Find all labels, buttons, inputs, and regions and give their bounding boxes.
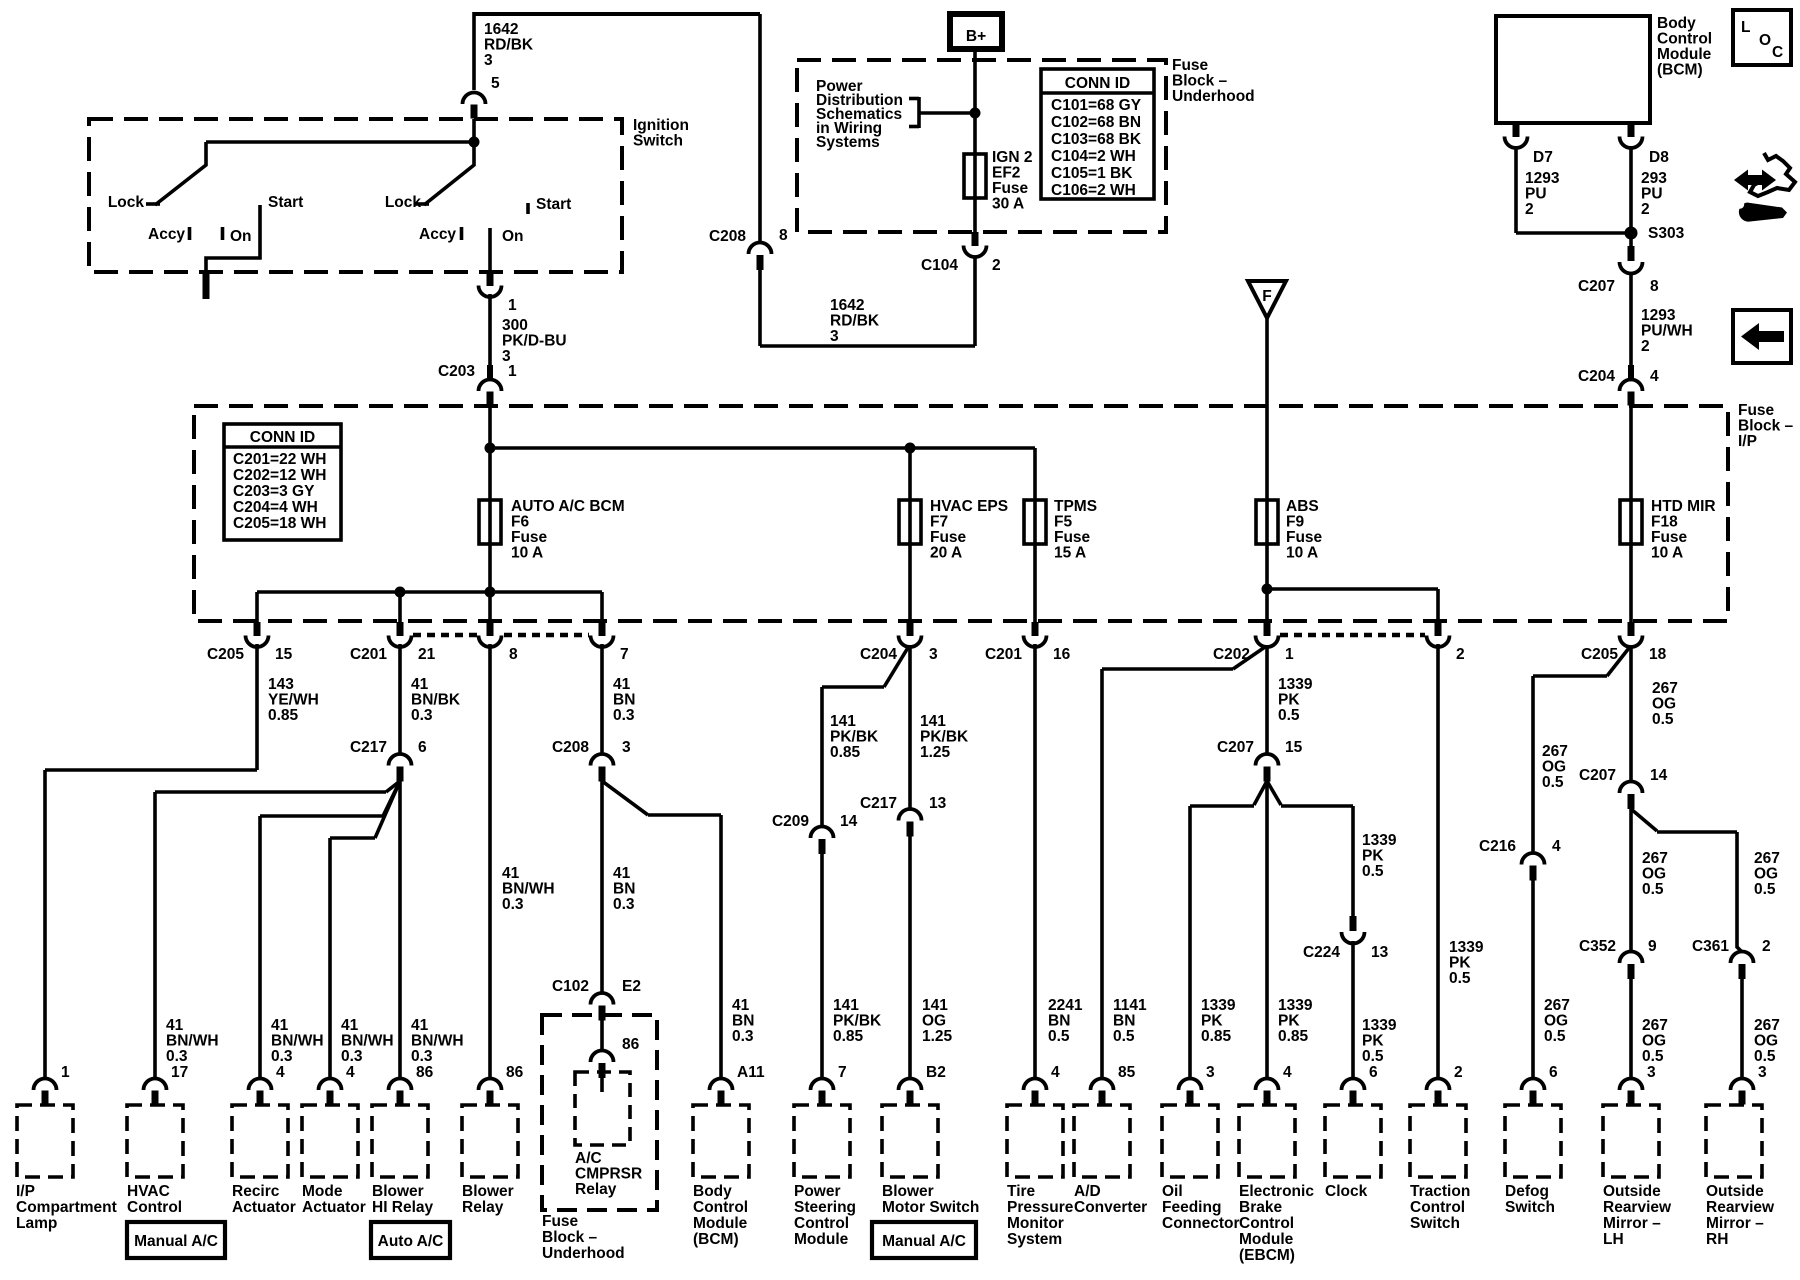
svg-text:Lamp: Lamp	[16, 1215, 57, 1232]
svg-text:14: 14	[840, 813, 858, 830]
svg-text:0.85: 0.85	[830, 744, 861, 761]
svg-text:1293: 1293	[1525, 170, 1560, 187]
svg-text:Fuse: Fuse	[992, 180, 1029, 197]
svg-text:16: 16	[1053, 646, 1071, 663]
svg-text:86: 86	[416, 1064, 434, 1081]
svg-text:10 A: 10 A	[511, 545, 543, 562]
svg-text:2: 2	[1525, 201, 1534, 218]
svg-text:13: 13	[929, 795, 947, 812]
svg-text:86: 86	[622, 1036, 640, 1053]
svg-text:Block –: Block –	[1738, 418, 1794, 435]
svg-text:BN: BN	[1113, 1013, 1135, 1030]
svg-text:0.5: 0.5	[1642, 881, 1664, 898]
svg-text:267: 267	[1642, 850, 1668, 867]
svg-text:Blower: Blower	[462, 1183, 514, 1200]
svg-text:PU/WH: PU/WH	[1641, 323, 1693, 340]
svg-text:Rearview: Rearview	[1603, 1199, 1672, 1216]
svg-text:Fuse: Fuse	[1286, 529, 1323, 546]
svg-text:Control: Control	[1410, 1199, 1465, 1216]
svg-text:C204: C204	[1578, 368, 1615, 385]
svg-text:PK/BK: PK/BK	[830, 729, 879, 746]
svg-text:PK: PK	[1201, 1013, 1223, 1030]
svg-text:0.5: 0.5	[1754, 881, 1776, 898]
svg-text:Fuse: Fuse	[1738, 402, 1775, 419]
svg-text:Tire: Tire	[1007, 1183, 1036, 1200]
svg-text:0.5: 0.5	[1278, 707, 1300, 724]
svg-text:141: 141	[830, 713, 856, 730]
svg-text:E2: E2	[622, 978, 641, 995]
svg-text:Defog: Defog	[1505, 1183, 1549, 1200]
svg-text:41: 41	[613, 676, 631, 693]
svg-text:5: 5	[491, 75, 500, 92]
svg-text:Manual A/C: Manual A/C	[882, 1233, 966, 1250]
svg-text:RD/BK: RD/BK	[830, 313, 880, 330]
svg-text:BN: BN	[613, 692, 635, 709]
svg-text:Module: Module	[794, 1231, 849, 1248]
svg-text:I/P: I/P	[16, 1183, 35, 1200]
svg-text:C217: C217	[350, 739, 387, 756]
svg-text:C352: C352	[1579, 938, 1616, 955]
svg-text:Module: Module	[1239, 1231, 1294, 1248]
svg-text:0.3: 0.3	[613, 896, 635, 913]
svg-text:30 A: 30 A	[992, 196, 1024, 213]
svg-text:C104: C104	[921, 257, 958, 274]
svg-text:C105=1 BK: C105=1 BK	[1051, 165, 1133, 182]
svg-text:1293: 1293	[1641, 307, 1676, 324]
svg-text:293: 293	[1641, 170, 1667, 187]
svg-text:Mirror –: Mirror –	[1603, 1215, 1661, 1232]
svg-text:Mirror –: Mirror –	[1706, 1215, 1764, 1232]
svg-text:Module: Module	[1657, 46, 1712, 63]
svg-text:C205: C205	[207, 646, 244, 663]
svg-text:41: 41	[411, 1017, 429, 1034]
svg-text:2: 2	[992, 257, 1001, 274]
svg-text:41: 41	[502, 865, 520, 882]
svg-text:267: 267	[1542, 743, 1568, 760]
svg-text:Body: Body	[693, 1183, 732, 1200]
svg-text:0.5: 0.5	[1362, 1048, 1384, 1065]
svg-text:YE/WH: YE/WH	[268, 692, 319, 709]
svg-text:A11: A11	[737, 1064, 765, 1081]
svg-text:C208: C208	[552, 739, 589, 756]
svg-text:OG: OG	[1754, 1033, 1778, 1050]
svg-text:(BCM): (BCM)	[1657, 62, 1703, 79]
svg-text:C102=68 BN: C102=68 BN	[1051, 114, 1141, 131]
svg-text:BN/WH: BN/WH	[341, 1033, 394, 1050]
svg-text:267: 267	[1652, 680, 1678, 697]
svg-text:HI Relay: HI Relay	[372, 1199, 434, 1216]
svg-text:C207: C207	[1578, 278, 1615, 295]
svg-text:HVAC: HVAC	[127, 1183, 170, 1200]
svg-text:LH: LH	[1603, 1231, 1624, 1248]
svg-text:0.85: 0.85	[1201, 1028, 1232, 1045]
svg-text:Outside: Outside	[1603, 1183, 1661, 1200]
svg-text:Lock: Lock	[108, 194, 145, 211]
svg-text:1.25: 1.25	[920, 744, 951, 761]
svg-text:Switch: Switch	[633, 133, 683, 150]
svg-text:BN/WH: BN/WH	[166, 1033, 219, 1050]
svg-text:Control: Control	[693, 1199, 748, 1216]
svg-text:I/P: I/P	[1738, 433, 1757, 450]
svg-text:Relay: Relay	[575, 1181, 617, 1198]
svg-text:85: 85	[1118, 1064, 1136, 1081]
svg-text:C103=68 BK: C103=68 BK	[1051, 131, 1142, 148]
svg-text:4: 4	[346, 1064, 355, 1081]
svg-text:2241: 2241	[1048, 997, 1083, 1014]
svg-text:41: 41	[411, 676, 429, 693]
svg-text:86: 86	[506, 1064, 524, 1081]
svg-text:System: System	[1007, 1231, 1062, 1248]
svg-text:2: 2	[1641, 201, 1650, 218]
svg-text:4: 4	[1283, 1064, 1292, 1081]
svg-text:6: 6	[1369, 1064, 1378, 1081]
svg-text:Fuse: Fuse	[1651, 529, 1688, 546]
svg-text:F5: F5	[1054, 514, 1072, 531]
svg-text:Oil: Oil	[1162, 1183, 1183, 1200]
svg-text:141: 141	[833, 997, 859, 1014]
svg-text:C201=22 WH: C201=22 WH	[233, 451, 326, 468]
svg-text:Rearview: Rearview	[1706, 1199, 1775, 1216]
svg-text:Converter: Converter	[1074, 1199, 1147, 1216]
svg-text:13: 13	[1371, 944, 1389, 961]
svg-text:300: 300	[502, 317, 528, 334]
svg-text:10 A: 10 A	[1651, 545, 1683, 562]
svg-text:0.5: 0.5	[1642, 1048, 1664, 1065]
svg-text:1.25: 1.25	[922, 1028, 953, 1045]
svg-text:Motor Switch: Motor Switch	[882, 1199, 979, 1216]
svg-text:C102: C102	[552, 978, 589, 995]
svg-text:41: 41	[613, 865, 631, 882]
svg-text:0.3: 0.3	[732, 1028, 754, 1045]
svg-text:C201: C201	[985, 646, 1022, 663]
svg-text:Electronic: Electronic	[1239, 1183, 1314, 1200]
svg-text:143: 143	[268, 676, 294, 693]
svg-text:CMPRSR: CMPRSR	[575, 1166, 642, 1183]
svg-text:(EBCM): (EBCM)	[1239, 1247, 1295, 1264]
svg-text:4: 4	[1650, 368, 1659, 385]
svg-text:Start: Start	[536, 196, 571, 213]
svg-text:0.5: 0.5	[1542, 774, 1564, 791]
svg-text:Monitor: Monitor	[1007, 1215, 1064, 1232]
svg-text:Control: Control	[1657, 31, 1712, 48]
svg-text:2: 2	[1456, 646, 1465, 663]
svg-text:B+: B+	[966, 28, 986, 45]
svg-text:2: 2	[1762, 938, 1771, 955]
svg-text:Underhood: Underhood	[1172, 88, 1255, 105]
svg-text:HTD MIR: HTD MIR	[1651, 498, 1716, 515]
svg-text:On: On	[230, 228, 252, 245]
svg-text:0.3: 0.3	[271, 1048, 293, 1065]
svg-text:3: 3	[1758, 1064, 1767, 1081]
svg-text:8: 8	[1650, 278, 1659, 295]
svg-text:0.5: 0.5	[1449, 970, 1471, 987]
svg-text:0.5: 0.5	[1544, 1028, 1566, 1045]
svg-text:Module: Module	[693, 1215, 748, 1232]
svg-text:Clock: Clock	[1325, 1183, 1368, 1200]
svg-text:Actuator: Actuator	[232, 1199, 296, 1216]
svg-text:C209: C209	[772, 813, 809, 830]
svg-text:Steering: Steering	[794, 1199, 856, 1216]
svg-text:Pressure: Pressure	[1007, 1199, 1074, 1216]
svg-text:1339: 1339	[1362, 832, 1397, 849]
svg-text:OG: OG	[1754, 866, 1778, 883]
svg-text:AUTO A/C BCM: AUTO A/C BCM	[511, 498, 625, 515]
svg-text:PU: PU	[1641, 186, 1663, 203]
svg-text:A/D: A/D	[1074, 1183, 1101, 1200]
svg-text:6: 6	[1549, 1064, 1558, 1081]
svg-text:2: 2	[1641, 338, 1650, 355]
svg-text:C205=18 WH: C205=18 WH	[233, 515, 326, 532]
svg-text:141: 141	[922, 997, 948, 1014]
svg-text:41: 41	[732, 997, 750, 1014]
svg-text:0.5: 0.5	[1754, 1048, 1776, 1065]
svg-text:Switch: Switch	[1410, 1215, 1460, 1232]
svg-text:0.3: 0.3	[411, 1048, 433, 1065]
svg-text:Accy: Accy	[148, 226, 185, 243]
svg-text:8: 8	[779, 227, 788, 244]
svg-text:3: 3	[1647, 1064, 1656, 1081]
svg-text:PK: PK	[1278, 692, 1300, 709]
svg-text:9: 9	[1648, 938, 1657, 955]
svg-text:267: 267	[1754, 1017, 1780, 1034]
svg-text:C: C	[1772, 44, 1783, 61]
svg-text:PK/D-BU: PK/D-BU	[502, 333, 567, 350]
svg-text:15: 15	[275, 646, 293, 663]
svg-text:Fuse: Fuse	[542, 1213, 579, 1230]
svg-text:1339: 1339	[1362, 1017, 1397, 1034]
svg-text:PK: PK	[1362, 1033, 1384, 1050]
svg-text:F7: F7	[930, 514, 948, 531]
svg-text:3: 3	[484, 52, 493, 69]
svg-text:41: 41	[341, 1017, 359, 1034]
svg-text:6: 6	[418, 739, 427, 756]
svg-text:Fuse: Fuse	[1054, 529, 1091, 546]
svg-text:C104=2 WH: C104=2 WH	[1051, 148, 1136, 165]
svg-text:Compartment: Compartment	[16, 1199, 117, 1216]
svg-text:OG: OG	[1542, 759, 1566, 776]
svg-text:C204=4 WH: C204=4 WH	[233, 499, 318, 516]
svg-text:267: 267	[1642, 1017, 1668, 1034]
svg-text:Fuse: Fuse	[930, 529, 967, 546]
svg-text:Underhood: Underhood	[542, 1245, 625, 1262]
svg-text:Body: Body	[1657, 15, 1696, 32]
svg-text:1339: 1339	[1449, 939, 1484, 956]
svg-text:Control: Control	[794, 1215, 849, 1232]
svg-text:0.3: 0.3	[341, 1048, 363, 1065]
svg-text:Blower: Blower	[882, 1183, 934, 1200]
svg-text:C101=68 GY: C101=68 GY	[1051, 97, 1142, 114]
svg-text:Feeding: Feeding	[1162, 1199, 1221, 1216]
svg-text:Start: Start	[268, 194, 303, 211]
svg-text:O: O	[1759, 32, 1771, 49]
svg-text:Switch: Switch	[1505, 1199, 1555, 1216]
svg-text:BN: BN	[1048, 1013, 1070, 1030]
svg-text:1141: 1141	[1113, 997, 1147, 1014]
svg-text:C203=3 GY: C203=3 GY	[233, 483, 315, 500]
svg-text:BN: BN	[613, 881, 635, 898]
svg-text:267: 267	[1544, 997, 1570, 1014]
svg-text:OG: OG	[1652, 696, 1676, 713]
svg-text:1: 1	[508, 363, 517, 380]
svg-text:17: 17	[171, 1064, 188, 1081]
svg-text:15 A: 15 A	[1054, 545, 1086, 562]
svg-text:Auto A/C: Auto A/C	[378, 1233, 444, 1250]
svg-text:C201: C201	[350, 646, 387, 663]
svg-text:Block –: Block –	[542, 1229, 598, 1246]
svg-text:OG: OG	[1642, 866, 1666, 883]
svg-text:Actuator: Actuator	[302, 1199, 366, 1216]
svg-text:18: 18	[1649, 646, 1667, 663]
svg-text:4: 4	[1051, 1064, 1060, 1081]
svg-text:3: 3	[929, 646, 938, 663]
svg-text:EF2: EF2	[992, 165, 1020, 182]
svg-text:0.3: 0.3	[502, 896, 524, 913]
svg-text:BN/WH: BN/WH	[502, 881, 555, 898]
svg-text:C204: C204	[860, 646, 897, 663]
svg-text:41: 41	[166, 1017, 184, 1034]
svg-text:D8: D8	[1649, 149, 1669, 166]
svg-text:CONN ID: CONN ID	[1065, 75, 1130, 92]
svg-text:Manual A/C: Manual A/C	[134, 1233, 218, 1250]
svg-text:Blower: Blower	[372, 1183, 424, 1200]
svg-text:1: 1	[508, 297, 517, 314]
svg-text:Outside: Outside	[1706, 1183, 1764, 1200]
svg-text:D7: D7	[1533, 149, 1553, 166]
svg-text:1: 1	[61, 1064, 70, 1081]
svg-text:20 A: 20 A	[930, 545, 962, 562]
svg-text:RD/BK: RD/BK	[484, 37, 534, 54]
svg-text:Connector: Connector	[1162, 1215, 1240, 1232]
svg-text:267: 267	[1754, 850, 1780, 867]
svg-text:8: 8	[509, 646, 518, 663]
svg-text:F9: F9	[1286, 514, 1304, 531]
svg-text:1642: 1642	[830, 297, 864, 314]
svg-text:7: 7	[838, 1064, 847, 1081]
svg-text:BN/WH: BN/WH	[411, 1033, 464, 1050]
svg-text:BN: BN	[732, 1013, 754, 1030]
svg-text:PK: PK	[1362, 848, 1384, 865]
svg-text:Fuse: Fuse	[511, 529, 548, 546]
svg-text:Control: Control	[127, 1199, 182, 1216]
svg-text:OG: OG	[1544, 1013, 1568, 1030]
svg-text:PK: PK	[1449, 955, 1471, 972]
svg-text:On: On	[502, 228, 524, 245]
svg-text:F: F	[1262, 288, 1271, 305]
svg-text:1339: 1339	[1201, 997, 1236, 1014]
svg-text:0.5: 0.5	[1362, 863, 1384, 880]
svg-text:IGN 2: IGN 2	[992, 149, 1032, 166]
svg-text:CONN ID: CONN ID	[250, 429, 315, 446]
svg-text:0.5: 0.5	[1652, 711, 1674, 728]
svg-text:0.5: 0.5	[1048, 1028, 1070, 1045]
svg-text:0.85: 0.85	[268, 707, 299, 724]
svg-text:1339: 1339	[1278, 997, 1313, 1014]
svg-text:15: 15	[1285, 739, 1303, 756]
svg-text:10 A: 10 A	[1286, 545, 1318, 562]
svg-text:Brake: Brake	[1239, 1199, 1282, 1216]
svg-text:4: 4	[276, 1064, 285, 1081]
svg-text:TPMS: TPMS	[1054, 498, 1097, 515]
svg-text:BN/WH: BN/WH	[271, 1033, 324, 1050]
svg-text:1642: 1642	[484, 21, 518, 38]
svg-text:141: 141	[920, 713, 946, 730]
svg-text:Power: Power	[794, 1183, 841, 1200]
svg-text:4: 4	[1552, 838, 1561, 855]
svg-text:C106=2 WH: C106=2 WH	[1051, 182, 1136, 199]
svg-text:2: 2	[1454, 1064, 1463, 1081]
svg-text:(BCM): (BCM)	[693, 1231, 739, 1248]
svg-text:0.85: 0.85	[833, 1028, 864, 1045]
svg-text:C205: C205	[1581, 646, 1618, 663]
svg-text:Accy: Accy	[419, 226, 456, 243]
svg-text:3: 3	[1206, 1064, 1215, 1081]
svg-text:Mode: Mode	[302, 1183, 343, 1200]
svg-text:21: 21	[418, 646, 436, 663]
svg-text:0.3: 0.3	[613, 707, 635, 724]
svg-text:PK: PK	[1278, 1013, 1300, 1030]
svg-text:0.85: 0.85	[1278, 1028, 1309, 1045]
svg-text:Relay: Relay	[462, 1199, 504, 1216]
svg-text:Block –: Block –	[1172, 73, 1228, 90]
svg-text:41: 41	[271, 1017, 289, 1034]
svg-text:PK/BK: PK/BK	[920, 729, 969, 746]
svg-text:Systems: Systems	[816, 134, 880, 151]
svg-text:C216: C216	[1479, 838, 1516, 855]
svg-text:3: 3	[622, 739, 631, 756]
svg-text:C202=12 WH: C202=12 WH	[233, 467, 326, 484]
svg-text:3: 3	[830, 328, 839, 345]
svg-text:0.3: 0.3	[411, 707, 433, 724]
svg-text:C207: C207	[1217, 739, 1254, 756]
svg-text:A/C: A/C	[575, 1150, 602, 1167]
svg-text:BN/BK: BN/BK	[411, 692, 461, 709]
svg-text:F6: F6	[511, 514, 529, 531]
svg-text:0.3: 0.3	[166, 1048, 188, 1065]
svg-text:S303: S303	[1648, 225, 1685, 242]
svg-text:B2: B2	[926, 1064, 946, 1081]
svg-text:Fuse: Fuse	[1172, 57, 1209, 74]
svg-text:ABS: ABS	[1286, 498, 1319, 515]
svg-text:C217: C217	[860, 795, 897, 812]
svg-text:C224: C224	[1303, 944, 1340, 961]
svg-text:1: 1	[1285, 646, 1294, 663]
svg-text:Traction: Traction	[1410, 1183, 1470, 1200]
svg-text:OG: OG	[1642, 1033, 1666, 1050]
svg-text:F18: F18	[1651, 514, 1678, 531]
svg-text:1339: 1339	[1278, 676, 1313, 693]
svg-text:Ignition: Ignition	[633, 117, 689, 134]
svg-text:C361: C361	[1692, 938, 1729, 955]
svg-text:Control: Control	[1239, 1215, 1294, 1232]
svg-text:Recirc: Recirc	[232, 1183, 280, 1200]
svg-text:RH: RH	[1706, 1231, 1728, 1248]
svg-text:HVAC EPS: HVAC EPS	[930, 498, 1008, 515]
svg-text:C207: C207	[1579, 767, 1616, 784]
svg-text:C203: C203	[438, 363, 475, 380]
svg-text:OG: OG	[922, 1013, 946, 1030]
svg-text:0.5: 0.5	[1113, 1028, 1135, 1045]
svg-text:PU: PU	[1525, 186, 1547, 203]
svg-text:14: 14	[1650, 767, 1668, 784]
svg-text:PK/BK: PK/BK	[833, 1013, 882, 1030]
svg-text:Lock: Lock	[385, 194, 422, 211]
svg-text:7: 7	[620, 646, 629, 663]
svg-text:L: L	[1741, 19, 1750, 36]
svg-text:C208: C208	[709, 228, 746, 245]
